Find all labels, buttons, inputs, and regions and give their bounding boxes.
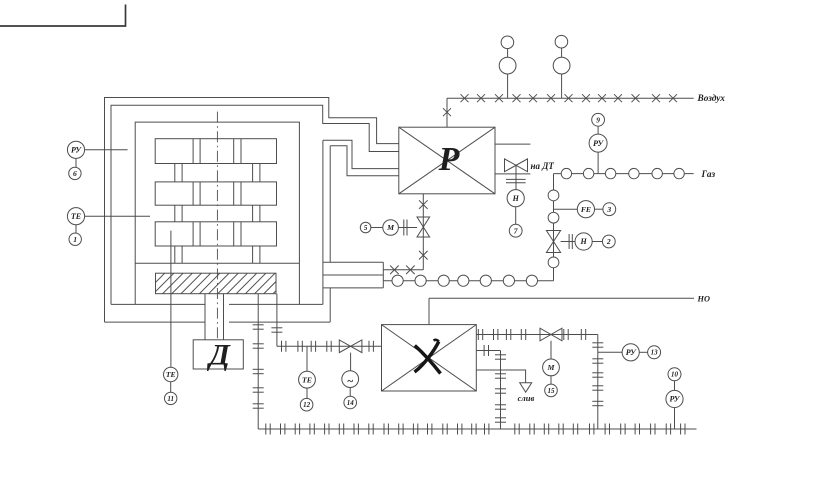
air line relief stack 1: [499, 36, 516, 98]
burner gas manifold with flanges: [383, 275, 553, 286]
normally-open line NO: [429, 297, 694, 299]
recuperator bottom pipe: [419, 194, 428, 270]
furnace chamber: [135, 122, 299, 304]
valve actuator stem: [350, 353, 352, 371]
wire TE-11: [170, 382, 172, 393]
valve to DT: [505, 159, 528, 190]
svg-text:М: М: [547, 363, 556, 372]
svg-text:Воздух: Воздух: [697, 93, 726, 104]
svg-text:ТЕ: ТЕ: [166, 370, 176, 379]
wire 9-PY: [597, 126, 599, 134]
svg-text:9: 9: [596, 115, 600, 124]
tag circle 10: [668, 368, 681, 381]
stem to drive block: [205, 294, 224, 340]
label Vozdukh: [697, 93, 726, 104]
tube bank support legs 3: [175, 246, 260, 263]
instrument TE (bottom left): [164, 367, 178, 381]
svg-text:13: 13: [651, 349, 659, 357]
svg-text:15: 15: [548, 387, 556, 395]
exchanger drain riser: [476, 345, 506, 429]
svg-text:на ДТ: на ДТ: [531, 161, 555, 171]
TE sensing line: [85, 215, 150, 217]
svg-text:Н: Н: [512, 194, 520, 203]
svg-text:Р: Р: [438, 141, 460, 178]
tube bank row 2: [155, 182, 276, 205]
thermocouple dip line: [170, 231, 172, 368]
vertical centerline: [216, 112, 218, 340]
drawing frame fragment: [0, 5, 126, 27]
gas supply line (Gaz): [554, 168, 694, 178]
svg-text:ТЕ: ТЕ: [71, 212, 81, 221]
tag circle 1: [69, 233, 81, 245]
outlet duct channels: [323, 262, 383, 288]
gas feed drop pipe: [548, 174, 559, 281]
svg-text:14: 14: [347, 399, 355, 407]
downcomer tick pair: [271, 294, 282, 347]
svg-text:РУ: РУ: [593, 139, 604, 148]
chamber shelf line: [135, 262, 299, 264]
recuperator stub line: [495, 143, 530, 145]
svg-text:5: 5: [364, 224, 368, 232]
heat exchanger block X: [382, 325, 477, 391]
instrument H (gas): [575, 233, 592, 250]
air return pipe with crosses: [383, 266, 423, 275]
wire 5-M: [371, 227, 383, 229]
instrument TE (left): [67, 208, 84, 225]
svg-text:РУ: РУ: [670, 395, 681, 404]
recuperator block P: [399, 127, 495, 194]
wire H-2: [592, 241, 602, 243]
outlet valve stem: [550, 341, 552, 359]
label NO: [697, 294, 710, 303]
gas shutoff valve: [546, 231, 560, 253]
PY bottom tap: [674, 408, 676, 429]
wire TE-1: [75, 225, 77, 233]
instrument PY (13): [622, 344, 639, 361]
PY sensing line: [85, 149, 128, 151]
svg-text:3: 3: [606, 205, 611, 214]
svg-text:Н: Н: [579, 237, 587, 246]
tag circle 13: [648, 346, 661, 359]
downcomer pipe left: [253, 294, 264, 429]
control valve V1 (air): [417, 217, 430, 237]
svg-text:слив: слив: [518, 393, 535, 403]
svg-text:РУ: РУ: [626, 348, 637, 357]
PY tap to gas line: [597, 152, 599, 174]
wire ~-14: [349, 388, 351, 397]
tag circle 11: [165, 392, 177, 404]
wire FE-3: [595, 208, 603, 210]
svg-text:~: ~: [347, 375, 354, 387]
svg-text:Д: Д: [206, 339, 231, 372]
instrument FE: [577, 201, 594, 218]
svg-text:6: 6: [73, 169, 77, 178]
tube bank support legs 1: [175, 164, 260, 182]
tube bank row 1: [155, 139, 276, 164]
label sliv: [518, 393, 535, 403]
wire H-7: [515, 207, 517, 225]
tag circle 6: [69, 167, 81, 179]
svg-text:Газ: Газ: [701, 170, 716, 180]
svg-text:11: 11: [167, 395, 174, 403]
recuperator air inlet stem: [443, 98, 451, 127]
tube bank row 3: [155, 222, 276, 246]
recuperator outlet line to DT: [495, 173, 530, 175]
instrument PY (gas): [589, 134, 607, 152]
outlet valve: [540, 328, 562, 341]
svg-text:2: 2: [606, 237, 611, 246]
wire PY-6: [75, 158, 77, 167]
svg-text:М: М: [386, 223, 395, 232]
actuator stem marks: [398, 220, 417, 236]
tube bank support legs 2: [175, 205, 260, 222]
actuator M (outlet): [543, 359, 560, 376]
drain line to funnel: [476, 370, 525, 383]
instrument H (na DT): [507, 190, 524, 207]
svg-text:ТЕ: ТЕ: [302, 375, 312, 384]
PY tap line: [598, 351, 622, 353]
furnace outer casing right wall: [330, 146, 399, 322]
control valve (feed): [339, 340, 362, 353]
air line relief stack 2: [553, 35, 570, 98]
right riser pipe: [592, 335, 603, 430]
bottom header pipe: [258, 424, 696, 435]
letter X mark: [415, 340, 441, 374]
wire PY-13: [639, 351, 647, 353]
instrument TE (feed): [299, 371, 316, 388]
instrument ~ (14): [342, 371, 359, 388]
wire TE-12: [306, 388, 308, 398]
instrument 9: [592, 113, 605, 126]
exchanger inlet stem: [428, 298, 430, 324]
tag circle 3: [603, 203, 616, 216]
furnace inner casing bottom: [111, 303, 323, 305]
actuator M (air valve): [383, 220, 399, 236]
tag circle 2: [602, 235, 615, 248]
furnace outer casing wall (left+top+duct to recuperator): [105, 98, 399, 323]
instrument PY (bottom right): [666, 390, 683, 407]
svg-text:12: 12: [303, 401, 311, 409]
furnace inner casing wall (left+top+duct to recuperator): [111, 105, 399, 304]
tag circle 5: [360, 222, 371, 233]
svg-text:1: 1: [73, 235, 77, 244]
label Gaz: [701, 170, 716, 180]
furnace inner casing right wall: [323, 140, 399, 304]
TE tap: [306, 346, 308, 371]
label na DT: [531, 161, 555, 171]
svg-text:РУ: РУ: [71, 146, 82, 155]
svg-text:FE: FE: [581, 205, 591, 214]
drain funnel: [520, 383, 532, 392]
tag circle 12: [300, 398, 313, 411]
tag circle 7: [509, 224, 522, 237]
feed line to exchanger X: [277, 341, 382, 352]
gas valve actuator line: [561, 234, 575, 249]
exchanger outlet line (top right): [476, 329, 598, 340]
wire M-15: [550, 376, 552, 384]
instrument PY (left): [67, 141, 84, 158]
drive unit block D: [193, 339, 243, 372]
furnace outer casing bottom: [105, 321, 331, 323]
svg-text:10: 10: [671, 371, 679, 379]
wire 10-PY: [674, 381, 676, 391]
FE tap line: [554, 208, 578, 210]
tag circle 14: [344, 396, 357, 409]
hatched base plate: [135, 273, 294, 294]
tag circle 15: [545, 384, 558, 397]
svg-text:НО: НО: [697, 294, 710, 303]
air supply line (Vozdukh): [447, 94, 694, 102]
